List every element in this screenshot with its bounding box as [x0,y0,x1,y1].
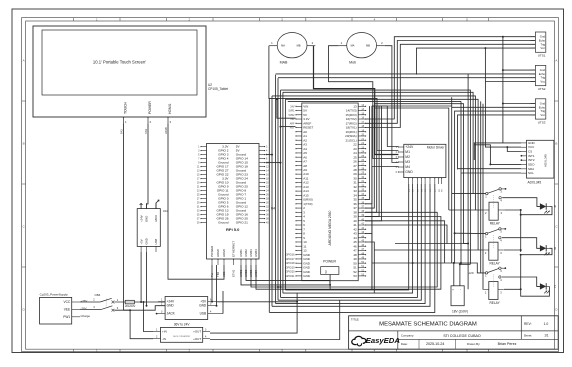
svg-text:+: + [452,288,454,292]
svg-text:+24V: +24V [139,215,143,222]
svg-text:RELAY: RELAY [490,222,501,226]
svg-text:GPIO19: GPIO19 [285,266,295,269]
svg-text:VEE: VEE [64,308,70,312]
svg-text:Company:: Company: [401,334,414,338]
svg-text:20A/24V: 20A/24V [125,304,136,308]
svg-text:5VR2: 5VR2 [289,114,296,117]
svg-text:+24V: +24V [405,145,414,149]
svg-text:GND: GND [199,304,207,308]
svg-text:UTS2: UTS2 [538,87,546,91]
svg-text:UTS1: UTS1 [538,54,546,58]
svg-text:USB: USB [200,312,207,316]
svg-text:Vcc: Vcc [540,80,545,84]
svg-text:GPIO21: GPIO21 [285,275,295,278]
svg-text:M1: M1 [405,150,410,154]
svg-text:EasyEDA: EasyEDA [366,336,400,345]
svg-text:USB1: USB1 [239,249,243,257]
svg-text:USB3: USB3 [249,249,253,257]
svg-text:CP105_Tablet: CP105_Tablet [208,87,228,91]
svg-text:Mob: Mob [349,61,356,65]
svg-text:-26V: -26V [81,307,87,311]
svg-text:SN3: SN3 [144,128,148,134]
svg-text:36V to 24V: 36V to 24V [174,323,191,327]
svg-text:B: B [555,142,557,146]
svg-text:VCC: VCC [63,300,70,304]
svg-text:M4: M4 [405,165,410,169]
svg-text:2025-10-24: 2025-10-24 [426,342,444,346]
svg-text:UTS3: UTS3 [538,120,546,124]
svg-text:HDMI: HDMI [222,249,226,257]
svg-text:POWER: POWER [323,260,336,264]
svg-text:RELAY: RELAY [489,262,500,266]
svg-text:ADXL345: ADXL345 [528,181,542,185]
svg-text:MA: MA [281,44,285,48]
svg-text:STI COLLEGE CUBAO: STI COLLEGE CUBAO [443,334,481,338]
svg-text:USB2: USB2 [244,249,248,257]
svg-text:GPIO16: GPIO16 [285,254,295,257]
svg-text:Date:: Date: [401,342,408,346]
svg-text:ADXL345: ADXL345 [544,154,548,167]
svg-text:POWER: POWER [148,101,152,114]
svg-text:Vcc: Vcc [540,46,545,50]
svg-text:B: B [23,142,25,146]
svg-text:Cp203_PowerSupply: Cp203_PowerSupply [40,293,69,297]
svg-text:53: 53 [353,274,357,278]
svg-text:+OUT: +OUT [193,330,201,334]
svg-text:HDMI: HDMI [216,249,220,257]
svg-text:M2: M2 [405,155,410,159]
svg-text:ARDUINO MEGA 2560: ARDUINO MEGA 2560 [328,210,332,245]
svg-text:TOUCH: TOUCH [124,101,128,114]
svg-text:GND: GND [145,238,149,244]
svg-text:BUCK CONVERTER: BUCK CONVERTER [173,336,190,338]
svg-text:-: - [460,288,461,292]
svg-text:ARF: ARF [290,122,295,125]
svg-text:RELAY: RELAY [489,301,500,305]
svg-text:ETHERNET: ETHERNET [232,241,236,257]
svg-text:MB: MB [366,44,370,48]
svg-text:HDMI1: HDMI1 [168,103,172,114]
svg-text:MA: MA [351,44,355,48]
svg-text:A: A [23,59,25,63]
svg-text:CB4: CB4 [95,293,101,297]
svg-text:Brian Perez: Brian Perez [498,342,517,346]
svg-text:POWER: POWER [210,245,214,257]
svg-text:GPIO17: GPIO17 [285,258,295,261]
svg-text:JACK: JACK [167,312,176,316]
svg-text:5V: 5V [324,270,328,273]
svg-text:1.0: 1.0 [544,322,549,326]
svg-text:PA3: PA3 [120,129,124,134]
svg-text:Ground: Ground [218,221,229,225]
svg-text:MESAMATE SCHEMATIC DIAGRAM: MESAMATE SCHEMATIC DIAGRAM [379,322,477,328]
svg-text:GND: GND [167,304,175,308]
svg-text:GPIO18: GPIO18 [285,262,295,265]
svg-text:GPIO20: GPIO20 [285,271,295,274]
svg-text:ETH1: ETH1 [232,269,236,277]
svg-text:PW1: PW1 [63,315,70,319]
svg-text:GPIO 21: GPIO 21 [236,221,248,225]
svg-text:24V: 24V [290,105,295,108]
svg-text:Charge: Charge [81,314,91,318]
svg-text:MB: MB [297,44,301,48]
svg-text:RPi 5.0: RPi 5.0 [226,227,240,232]
svg-text:+26V: +26V [81,299,88,303]
svg-text:-IN: -IN [162,337,166,341]
svg-text:GND: GND [145,216,149,222]
svg-text:1/1: 1/1 [544,334,549,338]
svg-text:B: B [554,247,556,251]
svg-text:+IN: +IN [162,330,167,334]
svg-text:REV:: REV: [524,322,532,326]
svg-text:USB: USB [154,239,158,245]
svg-text:Sheet:: Sheet: [524,334,533,338]
svg-text:Drawn By:: Drawn By: [467,342,481,346]
svg-text:HDMI: HDMI [164,127,168,134]
svg-text:JACK: JACK [154,215,158,222]
svg-text:Vcc: Vcc [540,113,545,117]
svg-text:10.1' Portable Touch Screen': 10.1' Portable Touch Screen' [93,60,146,65]
svg-text:GND: GND [405,170,413,174]
svg-text:+5V: +5V [139,239,143,244]
svg-text:18V (2x9V): 18V (2x9V) [452,310,468,314]
svg-text:U20: U20 [468,271,474,275]
svg-text:5VR1: 5VR1 [289,110,296,113]
svg-text:MAB: MAB [280,61,288,65]
svg-text:+OUT: +OUT [193,337,201,341]
svg-text:SCL: SCL [528,171,534,175]
svg-text:GND: GND [303,274,311,278]
svg-text:A: A [555,59,557,63]
svg-text:Motor Driver: Motor Driver [427,145,445,149]
svg-text:USB4: USB4 [254,249,258,257]
svg-text:TITLE:: TITLE: [351,317,360,321]
svg-text:M3: M3 [405,160,410,164]
